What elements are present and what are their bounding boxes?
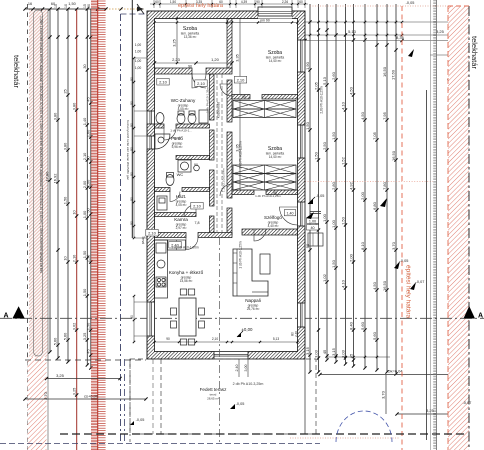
svg-text:telekhatár: telekhatár bbox=[470, 36, 479, 69]
svg-text:1,20: 1,20 bbox=[211, 57, 220, 62]
svg-text:3,80: 3,80 bbox=[53, 112, 58, 120]
svg-text:3,70: 3,70 bbox=[391, 241, 396, 250]
svg-text:2,97 m²: 2,97 m² bbox=[176, 226, 187, 230]
svg-text:1 db Ph A10-1...: 1 db Ph A10-1... bbox=[170, 129, 192, 133]
svg-text:3,15: 3,15 bbox=[331, 347, 336, 356]
svg-text:90: 90 bbox=[188, 65, 192, 69]
svg-text:90: 90 bbox=[130, 315, 134, 319]
svg-text:1 db Ph A10-1,25m: 1 db Ph A10-1,25m bbox=[255, 194, 281, 198]
svg-text:4,50: 4,50 bbox=[372, 281, 377, 290]
svg-text:1,50: 1,50 bbox=[340, 216, 345, 225]
svg-text:1 db Ph A10-1,35m: 1 db Ph A10-1,35m bbox=[206, 87, 210, 113]
svg-text:5,13: 5,13 bbox=[273, 337, 279, 341]
svg-text:4,39: 4,39 bbox=[241, 0, 247, 4]
svg-text:WC-Zuhany: WC-Zuhany bbox=[171, 98, 196, 103]
svg-text:1,50: 1,50 bbox=[331, 259, 336, 268]
svg-text:3,25: 3,25 bbox=[436, 29, 445, 34]
svg-text:16: 16 bbox=[28, 2, 32, 6]
svg-text:1,00: 1,00 bbox=[85, 179, 90, 187]
svg-text:8,10: 8,10 bbox=[360, 241, 365, 250]
svg-text:2,89 Ph A10-2,25m: 2,89 Ph A10-2,25m bbox=[320, 86, 324, 114]
svg-text:1,00: 1,00 bbox=[331, 219, 336, 228]
svg-text:5,60: 5,60 bbox=[53, 337, 58, 345]
svg-text:15: 15 bbox=[54, 4, 58, 8]
svg-text:-0,05: -0,05 bbox=[400, 259, 409, 263]
svg-text:2,10: 2,10 bbox=[148, 231, 157, 236]
svg-text:2,05: 2,05 bbox=[313, 81, 318, 90]
svg-text:60: 60 bbox=[299, 0, 303, 4]
svg-text:2,00: 2,00 bbox=[348, 253, 353, 262]
svg-text:2,60: 2,60 bbox=[331, 71, 336, 80]
svg-text:17,60: 17,60 bbox=[391, 69, 396, 80]
svg-text:14,40 m²: 14,40 m² bbox=[269, 59, 282, 63]
svg-text:7,95: 7,95 bbox=[382, 111, 387, 120]
svg-text:45: 45 bbox=[85, 349, 90, 353]
svg-text:1,50: 1,50 bbox=[305, 121, 310, 130]
svg-text:3,25: 3,25 bbox=[56, 373, 65, 378]
svg-text:10: 10 bbox=[64, 4, 68, 8]
svg-text:1,10x2,10x0,9/4m: 1,10x2,10x0,9/4m bbox=[222, 168, 226, 192]
svg-text:60: 60 bbox=[155, 0, 159, 4]
svg-text:7,05: 7,05 bbox=[372, 131, 377, 140]
svg-text:Szélfogó: Szélfogó bbox=[264, 215, 282, 220]
svg-text:1,40: 1,40 bbox=[82, 117, 87, 125]
svg-text:3,03: 3,03 bbox=[340, 349, 345, 358]
svg-text:4,10: 4,10 bbox=[340, 279, 345, 288]
svg-text:2,10: 2,10 bbox=[237, 78, 246, 83]
svg-text:2,40: 2,40 bbox=[294, 331, 298, 337]
svg-text:3,35: 3,35 bbox=[236, 54, 240, 61]
svg-text:4,92: 4,92 bbox=[348, 181, 353, 190]
svg-text:60x90: 60x90 bbox=[173, 136, 182, 140]
svg-text:Kamra: Kamra bbox=[174, 217, 188, 222]
svg-text:WC: WC bbox=[177, 172, 184, 177]
svg-text:A: A bbox=[478, 313, 483, 320]
svg-text:16,92: 16,92 bbox=[53, 174, 58, 184]
svg-text:1,50: 1,50 bbox=[63, 196, 68, 204]
svg-text:3,25: 3,25 bbox=[71, 388, 76, 396]
svg-text:-0,05: -0,05 bbox=[316, 194, 325, 198]
svg-text:5,60: 5,60 bbox=[372, 331, 377, 340]
svg-text:2,10: 2,10 bbox=[71, 254, 76, 262]
svg-text:telekhatár: telekhatár bbox=[12, 55, 21, 88]
svg-text:90: 90 bbox=[130, 221, 134, 225]
svg-text:3,02: 3,02 bbox=[71, 323, 76, 331]
svg-text:közlekedő: közlekedő bbox=[217, 102, 221, 118]
svg-text:1,50: 1,50 bbox=[170, 0, 176, 4]
svg-text:45: 45 bbox=[322, 349, 327, 354]
svg-text:1,50: 1,50 bbox=[68, 2, 75, 6]
svg-text:-0,05: -0,05 bbox=[136, 418, 145, 422]
svg-text:3,03: 3,03 bbox=[313, 349, 318, 358]
svg-text:1,00: 1,00 bbox=[322, 213, 327, 222]
svg-text:2,10: 2,10 bbox=[159, 80, 168, 85]
svg-text:4,50: 4,50 bbox=[348, 86, 353, 95]
svg-text:1,00: 1,00 bbox=[135, 66, 142, 70]
svg-text:Ok=6,04: Ok=6,04 bbox=[387, 369, 403, 374]
svg-text:1,50: 1,50 bbox=[82, 288, 87, 296]
svg-text:16,50: 16,50 bbox=[391, 150, 396, 161]
svg-text:3,00: 3,00 bbox=[244, 365, 248, 372]
svg-text:8,36: 8,36 bbox=[396, 35, 405, 40]
svg-text:25,76 m²: 25,76 m² bbox=[247, 307, 260, 311]
svg-text:30: 30 bbox=[87, 4, 91, 8]
svg-text:5,60: 5,60 bbox=[63, 332, 68, 340]
svg-text:2,50: 2,50 bbox=[322, 141, 327, 150]
svg-text:2,10: 2,10 bbox=[193, 204, 202, 209]
svg-text:90: 90 bbox=[242, 95, 246, 99]
svg-text:90: 90 bbox=[305, 243, 310, 248]
svg-text:13,36 m²: 13,36 m² bbox=[184, 35, 197, 39]
svg-text:40: 40 bbox=[310, 226, 314, 230]
svg-text:Nappali: Nappali bbox=[245, 298, 261, 303]
svg-text:90: 90 bbox=[166, 337, 170, 341]
svg-text:4,50: 4,50 bbox=[360, 111, 365, 120]
svg-text:építési hely határa: építési hely határa bbox=[178, 3, 224, 9]
svg-text:2,10: 2,10 bbox=[197, 81, 206, 86]
svg-text:7,80: 7,80 bbox=[382, 181, 387, 190]
svg-text:pm 90: pm 90 bbox=[260, 19, 270, 23]
svg-text:2,80: 2,80 bbox=[331, 181, 336, 190]
svg-text:90: 90 bbox=[256, 0, 260, 4]
svg-text:90: 90 bbox=[273, 191, 277, 195]
svg-text:28,65 m²: 28,65 m² bbox=[207, 397, 219, 401]
svg-text:1,50: 1,50 bbox=[313, 151, 318, 160]
svg-text:90: 90 bbox=[130, 197, 134, 201]
svg-text:1,00: 1,00 bbox=[135, 50, 142, 54]
svg-text:A: A bbox=[3, 313, 8, 320]
svg-text:1 db Ph A10-1,25m: 1 db Ph A10-1,25m bbox=[239, 241, 243, 269]
svg-text:90: 90 bbox=[130, 101, 134, 105]
svg-text:3,25: 3,25 bbox=[173, 39, 177, 46]
svg-text:Tervd: Tervd bbox=[141, 236, 145, 244]
svg-text:8,40: 8,40 bbox=[348, 321, 353, 330]
svg-text:1,00: 1,00 bbox=[135, 59, 142, 63]
svg-text:17,80: 17,80 bbox=[45, 171, 50, 182]
svg-text:1,02: 1,02 bbox=[322, 273, 327, 282]
svg-text:5,13: 5,13 bbox=[348, 29, 357, 34]
svg-text:1,00: 1,00 bbox=[135, 43, 142, 47]
svg-text:4,40 m²: 4,40 m² bbox=[268, 224, 279, 228]
svg-text:6,80: 6,80 bbox=[372, 201, 377, 210]
svg-text:-0,07: -0,07 bbox=[416, 280, 425, 284]
svg-text:1,00: 1,00 bbox=[309, 219, 316, 223]
svg-text:25: 25 bbox=[63, 89, 68, 93]
svg-text:2,40: 2,40 bbox=[235, 365, 239, 372]
svg-text:2,26: 2,26 bbox=[282, 0, 288, 4]
svg-text:1,06m Léckerített deszka kerít: 1,06m Léckerített deszka kerítés alapozá… bbox=[39, 16, 43, 273]
svg-text:3,25: 3,25 bbox=[82, 333, 87, 341]
svg-text:1 db Ph A10-1,25m: 1 db Ph A10-1,25m bbox=[239, 141, 243, 169]
svg-text:4,05 m²: 4,05 m² bbox=[176, 203, 187, 207]
svg-text:1,40: 1,40 bbox=[287, 211, 294, 215]
svg-text:2 db Ph A10-3,25m: 2 db Ph A10-3,25m bbox=[233, 382, 264, 386]
svg-text:2,00: 2,00 bbox=[360, 191, 365, 200]
svg-text:Kéménykürtő turbó zárt kazán Ø: Kéménykürtő turbó zárt kazán Ø125/80 gáz bbox=[126, 120, 130, 180]
svg-text:16,50: 16,50 bbox=[382, 280, 387, 291]
svg-text:16,50: 16,50 bbox=[382, 66, 387, 77]
svg-text:4,05 m²: 4,05 m² bbox=[178, 107, 189, 111]
svg-text:5,96 m²: 5,96 m² bbox=[172, 145, 183, 149]
svg-text:1,90: 1,90 bbox=[305, 61, 310, 70]
svg-text:90: 90 bbox=[130, 77, 134, 81]
svg-text:3,70: 3,70 bbox=[381, 390, 386, 399]
svg-text:4,10: 4,10 bbox=[340, 101, 345, 110]
svg-text:-0,07: -0,07 bbox=[463, 401, 472, 405]
svg-text:3,80: 3,80 bbox=[63, 142, 68, 150]
svg-text:1,50: 1,50 bbox=[331, 131, 336, 140]
svg-text:7,8: 7,8 bbox=[195, 221, 200, 225]
svg-text:14,56 m²: 14,56 m² bbox=[180, 279, 193, 283]
svg-text:2,50: 2,50 bbox=[85, 254, 90, 262]
svg-text:3,70: 3,70 bbox=[43, 391, 48, 400]
svg-text:Konyha + étkező: Konyha + étkező bbox=[169, 270, 204, 275]
svg-text:3,80: 3,80 bbox=[71, 102, 76, 110]
svg-text:2,10: 2,10 bbox=[212, 337, 218, 341]
svg-text:1,60: 1,60 bbox=[85, 129, 90, 137]
svg-text:Fedett terasz: Fedett terasz bbox=[200, 387, 228, 392]
svg-text:14,40 m²: 14,40 m² bbox=[269, 155, 282, 159]
svg-text:45: 45 bbox=[85, 97, 90, 101]
svg-text:2,23: 2,23 bbox=[172, 57, 181, 62]
svg-text:cs+6,00: cs+6,00 bbox=[84, 394, 99, 399]
svg-text:3,15: 3,15 bbox=[305, 346, 310, 355]
svg-text:-0,05: -0,05 bbox=[236, 402, 245, 406]
svg-text:5,13: 5,13 bbox=[322, 76, 327, 85]
svg-text:1,50: 1,50 bbox=[85, 322, 90, 330]
svg-text:1,52: 1,52 bbox=[340, 156, 345, 165]
svg-text:építési hely határa: építési hely határa bbox=[405, 265, 412, 319]
svg-text:-0,05: -0,05 bbox=[406, 1, 415, 5]
svg-text:1 db Ph A10-1,00m: 1 db Ph A10-1,00m bbox=[171, 246, 199, 250]
svg-text:5,60: 5,60 bbox=[360, 321, 365, 330]
